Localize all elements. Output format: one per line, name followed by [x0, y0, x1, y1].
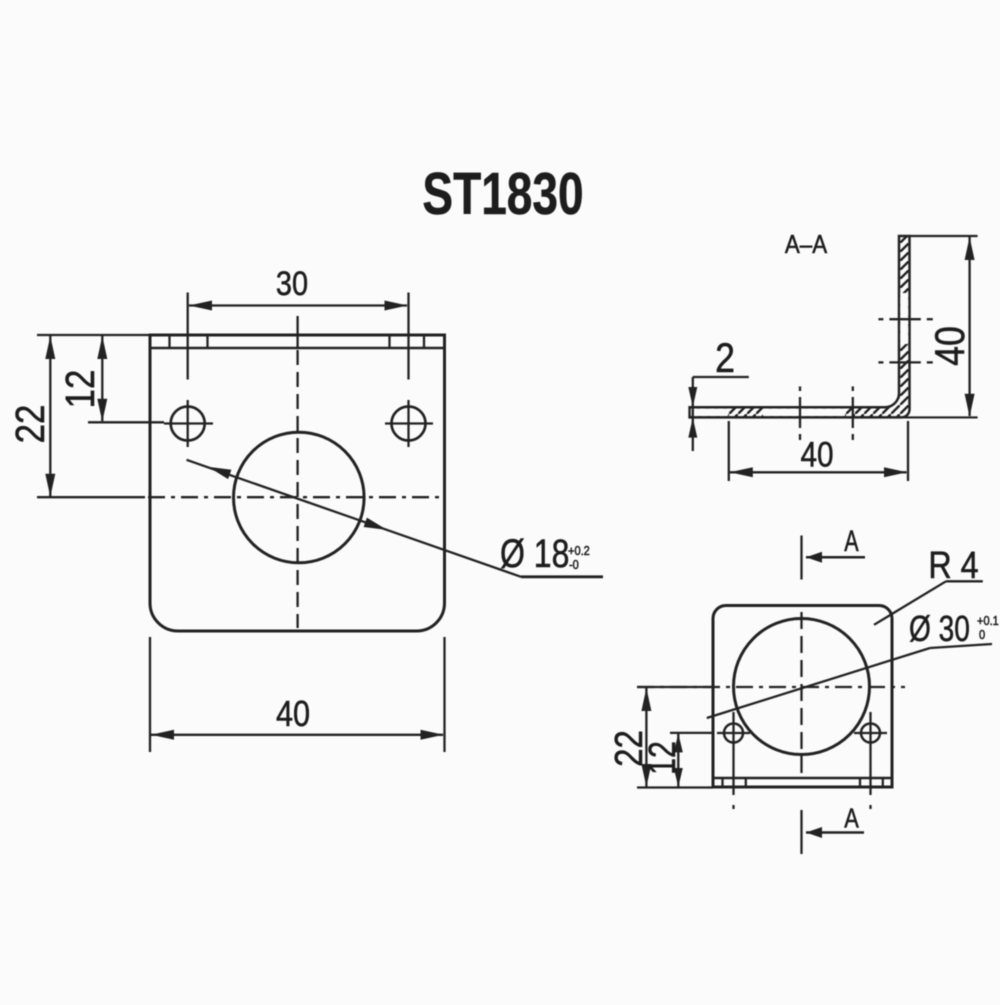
svg-text:2: 2 [715, 335, 735, 381]
top view outline [713, 606, 892, 788]
front view right hole [385, 400, 433, 447]
dimension 40 bottom front [150, 637, 445, 752]
svg-text:12: 12 [642, 741, 684, 775]
dimension 22 top view [637, 687, 713, 788]
bend tick marks [170, 335, 425, 348]
svg-text:A: A [844, 803, 859, 834]
svg-text:Ø 18: Ø 18 [500, 531, 569, 576]
top view bend ticks [723, 778, 883, 787]
top view horizontal centerline [637, 686, 905, 688]
section arrow A bottom [806, 831, 864, 834]
section arrow A top [806, 556, 865, 559]
section A-A L profile with hatching [690, 236, 910, 417]
svg-text:30: 30 [276, 264, 308, 303]
svg-text:40: 40 [800, 435, 833, 474]
svg-text:A–A: A–A [785, 230, 828, 259]
top view left small hole [717, 712, 750, 809]
front view left hole [164, 400, 213, 447]
dimension 12 left [88, 336, 164, 422]
svg-text:ST1830: ST1830 [422, 162, 583, 228]
svg-text:A: A [844, 523, 859, 557]
top view right small hole [854, 712, 887, 809]
dimension 2 thickness [693, 377, 749, 451]
svg-text:22: 22 [8, 405, 53, 444]
hatch gaps (hole cut regions) [691, 409, 728, 416]
section centermarks on horizontal leg [800, 386, 853, 440]
section centermarks on vertical leg [878, 319, 932, 362]
svg-text:+0.1: +0.1 [977, 613, 999, 628]
svg-text:40: 40 [276, 695, 310, 735]
front view bend line [150, 347, 445, 350]
diameter 18 leader [187, 460, 604, 577]
top view bend line [713, 777, 892, 780]
dimension 40 below section [729, 421, 908, 481]
dimension 40 right of section [910, 236, 977, 416]
section bottom face extension [690, 416, 978, 418]
svg-text:0: 0 [979, 627, 985, 642]
front view outline [150, 335, 445, 631]
svg-text:40: 40 [927, 326, 973, 366]
front view big hole circle [233, 432, 364, 563]
dimension 30 top [188, 293, 409, 380]
front view horizontal centerline [148, 496, 444, 498]
svg-text:Ø 30: Ø 30 [909, 609, 970, 649]
diameter 30 leader [707, 644, 992, 718]
top view vertical centerline [800, 536, 802, 855]
svg-text:-0: -0 [569, 557, 579, 572]
dimension 12 top view [670, 733, 712, 787]
svg-text:12: 12 [58, 370, 103, 409]
front view vertical centerline [296, 316, 298, 628]
svg-text:+0.2: +0.2 [568, 543, 590, 558]
dimension 22 left [37, 335, 150, 497]
top view big circle [734, 619, 870, 755]
